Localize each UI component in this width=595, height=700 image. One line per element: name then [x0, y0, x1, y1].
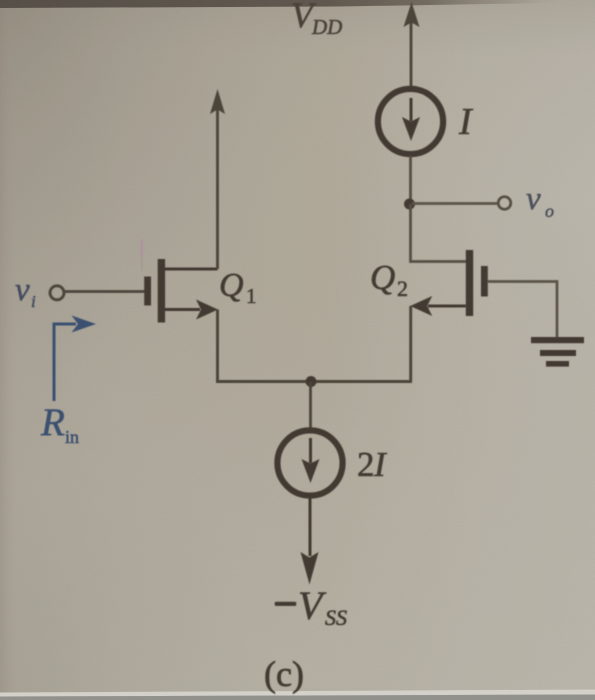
- transistor Q2: [410, 250, 488, 316]
- wire current source I to output node: [409, 156, 412, 204]
- wire junction to current source 2I: [309, 382, 312, 430]
- wire Q2 gate to ground: [488, 282, 557, 339]
- power -VSS label: [275, 583, 347, 630]
- wire common source rail: [216, 380, 412, 383]
- label Q2: [370, 258, 408, 301]
- wire output node to Q2 drain: [411, 204, 467, 262]
- current source 2I: [277, 430, 342, 495]
- terminal vo: [498, 197, 511, 210]
- junction common sources: [306, 376, 317, 387]
- terminal vi: [50, 286, 64, 300]
- power VDD label: [291, 0, 342, 39]
- node output junction: [404, 199, 415, 210]
- wire Q1 drain up with arrow: [210, 89, 225, 269]
- current source I: [378, 89, 443, 154]
- wire Q2 source to common rail: [409, 306, 412, 382]
- wire Q1 source to common rail: [216, 310, 219, 382]
- label vi: [15, 272, 36, 311]
- wire node to output terminal: [412, 202, 498, 205]
- wire vi to Q1 gate: [65, 290, 145, 293]
- wire 2I to VSS arrow: [301, 498, 319, 585]
- label I: [458, 101, 474, 143]
- caption (c): [264, 654, 304, 694]
- label vo: [526, 181, 554, 221]
- label Q1: [219, 267, 257, 308]
- ground: [531, 337, 584, 367]
- label Rin: [40, 401, 79, 447]
- input resistance Rin arrow: [54, 316, 96, 402]
- stray pink mark: [141, 239, 144, 271]
- wire current source I to VDD with arrow: [404, 2, 420, 87]
- label 2I: [357, 445, 388, 484]
- transistor Q1: [144, 259, 218, 323]
